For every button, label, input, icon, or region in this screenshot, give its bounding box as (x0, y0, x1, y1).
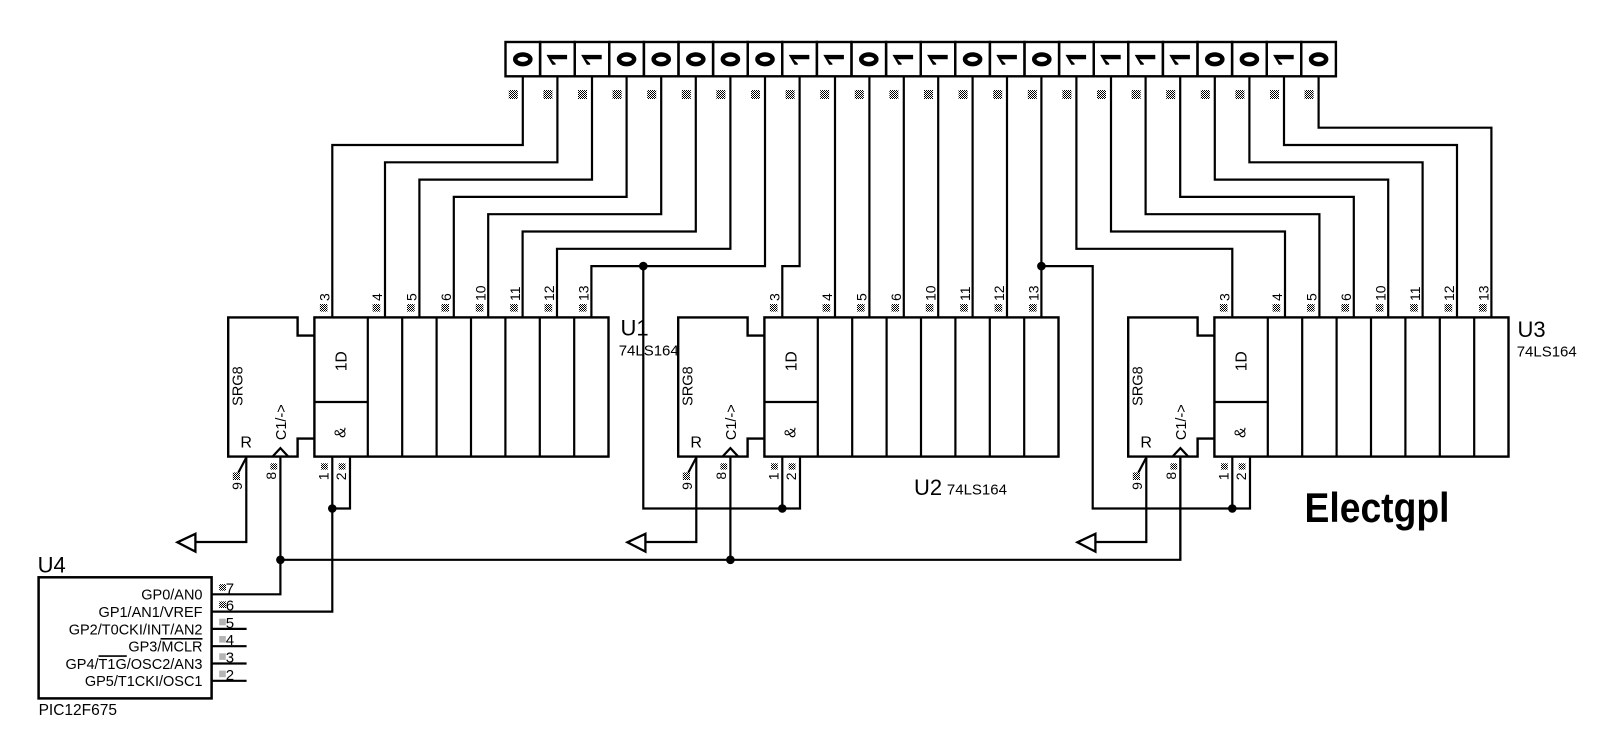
overline T1G (99, 655, 127, 657)
wire origin marker bit 18 (1097, 90, 1106, 99)
junction dot U1 pins 1,2 (328, 504, 337, 513)
wire origin marker bit 1 (509, 90, 518, 99)
U1 reset input arrow terminal (177, 534, 195, 552)
U2 pin 10 origin marker (926, 304, 934, 312)
bit box 2 (value 1) (540, 42, 575, 76)
wire bit 17 to U3 pin 3 (1076, 76, 1232, 317)
svg-text:SRG8: SRG8 (681, 366, 697, 406)
svg-text:GP3/MCLR: GP3/MCLR (128, 640, 202, 656)
svg-text:5: 5 (854, 293, 870, 301)
wire origin marker bit 22 (1235, 90, 1244, 99)
junction dot U2 pins 1,2 (778, 504, 787, 513)
IC U1 register block (314, 317, 608, 456)
svg-text:U3: U3 (1518, 317, 1546, 342)
IC U1 74LS164 control block (SRG8) (228, 317, 314, 456)
svg-text:1D: 1D (334, 351, 351, 371)
IC U4 PIC12F675 body (39, 577, 212, 698)
wire origin marker bit 16 (1028, 90, 1037, 99)
svg-text:1: 1 (315, 472, 331, 480)
IC U1 clock edge triangle (pin 8) (273, 448, 289, 457)
wire bit 21 to U3 pin 10 (1215, 76, 1388, 317)
IC U2 internal cell dividers (764, 317, 1024, 456)
svg-text:C1/->: C1/-> (274, 404, 290, 440)
wire U4 pin 7 (GP0) to clock bus (212, 560, 281, 595)
bit box 20 (value 1) (1163, 42, 1198, 76)
svg-text:C1/->: C1/-> (1174, 404, 1190, 440)
U4 pin 5 origin marker (219, 619, 226, 626)
wire branch Q7(U2) down to U3 data pins 1,2 (1041, 266, 1232, 508)
bit box 5 (value 0) (644, 42, 679, 76)
svg-text:2: 2 (333, 472, 349, 480)
U3 pin 9 diagonal stub (1137, 458, 1147, 476)
U2 pin 8 wire (clock) (729, 457, 731, 560)
U2 pin 2 origin marker (789, 463, 796, 469)
U4 pin 4 origin marker (219, 636, 226, 643)
wire origin marker bit 24 (1305, 90, 1314, 99)
wire origin marker bit 2 (543, 90, 552, 99)
svg-text:SRG8: SRG8 (1131, 366, 1147, 406)
bit box 14 (value 0) (955, 42, 990, 76)
wire origin marker bit 21 (1201, 90, 1210, 99)
wire origin marker bit 23 (1270, 90, 1279, 99)
wire bit 2 to U1 pin 4 (385, 76, 557, 317)
U2 pin 5 origin marker (857, 304, 865, 312)
svg-text:8: 8 (263, 472, 279, 480)
svg-text:74LS164: 74LS164 (619, 342, 679, 359)
bit box 23 (value 1) (1267, 42, 1302, 76)
wire origin marker bit 8 (751, 90, 760, 99)
wire bit 16 to U2 pin 13 (1040, 76, 1042, 317)
U4 pin 4 stub wire (212, 645, 247, 647)
U2 pin 2 wire (data B) (782, 457, 800, 509)
U3 reset input arrow terminal (1077, 534, 1095, 552)
wire bit 7 to U1 pin 12 (557, 76, 730, 317)
svg-text:13: 13 (1026, 285, 1042, 301)
wire origin marker bit 4 (613, 90, 622, 99)
U2 pin 12 origin marker (995, 304, 1003, 312)
U3 pin 2 origin marker (1239, 463, 1246, 469)
svg-text:&: & (783, 427, 800, 438)
wire origin marker bit 20 (1166, 90, 1175, 99)
bit box 21 (value 0) (1198, 42, 1233, 76)
svg-text:U2: U2 (914, 475, 942, 500)
IC U1 internal cell dividers (314, 317, 574, 456)
wire bit 23 to U3 pin 12 (1284, 76, 1457, 317)
bit box 4 (value 0) (609, 42, 644, 76)
IC U2 74LS164 control block (SRG8) (678, 317, 764, 456)
U3 pin 9 wire (reset) (1095, 457, 1146, 542)
U2 pin 6 origin marker (891, 304, 899, 312)
wire U4 pin 6 (GP1) to U1 pins 1,2 (212, 509, 333, 612)
svg-text:8: 8 (1163, 472, 1179, 480)
bit box 8 (value 0) (748, 42, 783, 76)
U4 pin 3 origin marker (219, 653, 226, 660)
U1 pin 9 wire (reset) (195, 457, 246, 542)
U4 pin 3 stub wire (212, 662, 247, 664)
bit box 9 (value 1) (782, 42, 817, 76)
U2 pin 1 wire (data A) (781, 457, 783, 509)
junction dot clock bus at U1 pin 8 (276, 556, 285, 565)
U2 pin 9 diagonal stub (687, 458, 697, 476)
U2 pin 1 origin marker (771, 463, 778, 469)
wire bit 18 to U3 pin 4 (1111, 76, 1285, 317)
wire origin marker bit 12 (889, 90, 898, 99)
U3 pin 1 wire (data A) (1231, 457, 1233, 509)
U2 pin 4 origin marker (823, 304, 831, 312)
wire bit 10 to U2 pin 4 (834, 76, 836, 317)
U4 pin 5 stub wire (212, 628, 247, 630)
svg-text:5: 5 (1304, 293, 1320, 301)
IC U2 clock edge triangle (pin 8) (723, 448, 739, 457)
IC U2 register block (764, 317, 1058, 456)
wire bit 1 to U1 pin 3 (332, 76, 523, 317)
svg-text:8: 8 (713, 472, 729, 480)
wire bit 4 to U1 pin 6 (454, 76, 627, 317)
junction dot clock bus at U2 pin 8 (726, 556, 735, 565)
U1 pin 6 origin marker (441, 304, 449, 312)
wire origin marker bit 5 (647, 90, 656, 99)
wire origin marker bit 11 (855, 90, 864, 99)
wire bit 15 to U2 pin 12 (1006, 76, 1008, 317)
svg-text:1: 1 (765, 472, 781, 480)
bit box 7 (value 0) (713, 42, 748, 76)
U1 pin 3 origin marker (320, 304, 328, 312)
U3 pin 8 origin marker (1170, 463, 1177, 469)
bit box 11 (value 0) (852, 42, 887, 76)
svg-text:9: 9 (1129, 482, 1145, 490)
IC U3 register block (1214, 317, 1508, 456)
wire clock bus (U4 GP0 to U1,U2,U3 pin 8) (280, 457, 1180, 560)
wire U1 pin 13 to bit 8 (Q7 net) (591, 76, 765, 317)
bit box 24 (value 0) (1301, 42, 1336, 76)
svg-text:9: 9 (229, 482, 245, 490)
junction dot Q7(U1) branch (639, 262, 648, 271)
U1 pin 2 wire (data B) (332, 457, 350, 509)
svg-text:&: & (1233, 427, 1250, 438)
svg-text:2: 2 (783, 472, 799, 480)
svg-text:C1/->: C1/-> (724, 404, 740, 440)
svg-text:3: 3 (767, 293, 783, 301)
svg-text:74LS164: 74LS164 (1517, 343, 1577, 360)
U1 pin 1 origin marker (321, 463, 328, 469)
svg-text:1D: 1D (784, 351, 801, 371)
wire bit 12 to U2 pin 6 (903, 76, 905, 317)
svg-text:1D: 1D (1234, 351, 1251, 371)
wire bit 19 to U3 pin 5 (1146, 76, 1320, 317)
bit box 19 (value 1) (1128, 42, 1163, 76)
svg-text:12: 12 (991, 285, 1007, 301)
svg-text:5: 5 (404, 293, 420, 301)
wire origin marker bit 13 (924, 90, 933, 99)
svg-text:R: R (1140, 435, 1152, 452)
U1 pin 9 origin marker (233, 472, 240, 480)
svg-text:10: 10 (1372, 285, 1388, 301)
U3 pin 3 origin marker (1220, 304, 1228, 312)
wire origin marker bit 19 (1132, 90, 1141, 99)
U1 pin 11 origin marker (510, 304, 518, 312)
U3 pin 4 origin marker (1273, 304, 1281, 312)
svg-text:GP5/T1CKI/OSC1: GP5/T1CKI/OSC1 (85, 674, 203, 690)
wire bit 24 to U3 pin 13 (1319, 76, 1492, 317)
bit box 6 (value 0) (679, 42, 714, 76)
wire bit 22 to U3 pin 11 (1249, 76, 1422, 317)
svg-text:GP2/T0CKI/INT/AN2: GP2/T0CKI/INT/AN2 (69, 622, 203, 638)
svg-text:SRG8: SRG8 (231, 366, 247, 406)
wire origin marker bit 9 (786, 90, 795, 99)
U3 pin 5 origin marker (1307, 304, 1315, 312)
svg-text:12: 12 (1441, 285, 1457, 301)
wire origin marker bit 15 (993, 90, 1002, 99)
svg-text:11: 11 (957, 286, 973, 301)
bit box 17 (value 1) (1059, 42, 1094, 76)
bit box 12 (value 1) (886, 42, 921, 76)
wire origin marker bit 3 (578, 90, 587, 99)
svg-text:&: & (333, 427, 350, 438)
wire bit 11 to U2 pin 5 (868, 76, 870, 317)
U1 pin 9 diagonal stub (237, 458, 247, 476)
U3 pin 12 origin marker (1445, 304, 1453, 312)
svg-text:3: 3 (317, 293, 333, 301)
wire bit 6 to U1 pin 11 (523, 76, 696, 317)
svg-text:6: 6 (1338, 293, 1354, 301)
svg-text:11: 11 (1407, 286, 1423, 301)
U1 pin 2 origin marker (339, 463, 346, 469)
svg-text:10: 10 (922, 285, 938, 301)
bit box 10 (value 1) (817, 42, 852, 76)
svg-text:GP4/T1G/OSC2/AN3: GP4/T1G/OSC2/AN3 (66, 657, 203, 673)
svg-text:12: 12 (541, 285, 557, 301)
U4 pin 7 origin marker (219, 584, 226, 591)
svg-text:6: 6 (438, 293, 454, 301)
wire origin marker bit 17 (1062, 90, 1071, 99)
svg-text:1: 1 (1215, 472, 1231, 480)
U1 pin 5 origin marker (407, 304, 415, 312)
svg-text:13: 13 (576, 285, 592, 301)
wire branch Q7(U1) down to U2 data pins 1,2 (643, 266, 782, 508)
junction dot Q7(U2) branch (1037, 262, 1046, 271)
U3 pin 8 wire (clock) (1179, 457, 1181, 560)
wire origin marker bit 6 (682, 90, 691, 99)
U1 pin 13 origin marker (579, 304, 587, 312)
wire origin marker bit 7 (716, 90, 725, 99)
U4 pin 6 origin marker (219, 601, 226, 608)
U1 pin 8 wire (clock) (279, 457, 281, 560)
U3 pin 13 origin marker (1479, 304, 1487, 312)
U3 pin 6 origin marker (1341, 304, 1349, 312)
wire bit 14 to U2 pin 11 (971, 76, 973, 317)
svg-text:6: 6 (888, 293, 904, 301)
U1 pin 12 origin marker (545, 304, 553, 312)
U3 pin 11 origin marker (1410, 304, 1418, 312)
bit box 16 (value 0) (1025, 42, 1060, 76)
svg-text:R: R (690, 435, 702, 452)
U2 reset input arrow terminal (627, 534, 645, 552)
U2 pin 13 origin marker (1029, 304, 1037, 312)
U2 pin 9 origin marker (683, 472, 690, 480)
U4 pin 2 stub wire (212, 680, 247, 682)
wire bit 9 to U2 pin 3 (782, 76, 799, 317)
U1 pin 10 origin marker (476, 304, 484, 312)
IC U3 74LS164 control block (SRG8) (1128, 317, 1214, 456)
svg-text:PIC12F675: PIC12F675 (39, 702, 117, 719)
junction dot U3 pins 1,2 (1228, 504, 1237, 513)
svg-text:2: 2 (1233, 472, 1249, 480)
svg-text:GP1/AN1/VREF: GP1/AN1/VREF (99, 605, 203, 621)
wire bit 13 to U2 pin 10 (937, 76, 939, 317)
svg-text:4: 4 (369, 293, 385, 301)
wire bit 20 to U3 pin 6 (1180, 76, 1354, 317)
svg-text:U4: U4 (38, 552, 66, 577)
svg-text:4: 4 (1269, 293, 1285, 301)
U1 pin 4 origin marker (373, 304, 381, 312)
U2 pin 9 wire (reset) (645, 457, 696, 542)
wire origin marker bit 10 (820, 90, 829, 99)
overline MCLR (161, 638, 203, 640)
svg-text:Electgpl: Electgpl (1305, 484, 1450, 531)
svg-text:GP0/AN0: GP0/AN0 (141, 588, 202, 604)
svg-text:10: 10 (472, 285, 488, 301)
svg-text:R: R (240, 435, 252, 452)
U3 pin 9 origin marker (1133, 472, 1140, 480)
wire origin marker bit 14 (959, 90, 968, 99)
svg-text:11: 11 (507, 286, 523, 301)
wire bit 3 to U1 pin 5 (419, 76, 592, 317)
svg-text:9: 9 (679, 482, 695, 490)
U3 pin 1 origin marker (1221, 463, 1228, 469)
svg-text:3: 3 (1217, 293, 1233, 301)
wire bit 5 to U1 pin 10 (488, 76, 661, 317)
U3 pin 10 origin marker (1376, 304, 1384, 312)
U2 pin 8 origin marker (720, 463, 727, 469)
U3 pin 2 wire (data B) (1232, 457, 1250, 509)
U2 pin 3 origin marker (770, 304, 778, 312)
svg-text:U1: U1 (621, 315, 649, 340)
bit box 18 (value 1) (1094, 42, 1129, 76)
bit box 1 (value 0) (506, 42, 541, 76)
bit box 13 (value 1) (921, 42, 956, 76)
IC U3 internal cell dividers (1214, 317, 1474, 456)
svg-text:13: 13 (1476, 285, 1492, 301)
U2 pin 11 origin marker (960, 304, 968, 312)
U1 pin 8 origin marker (270, 463, 277, 469)
bit box 22 (value 0) (1232, 42, 1267, 76)
svg-text:4: 4 (819, 293, 835, 301)
IC U3 clock edge triangle (pin 8) (1173, 448, 1189, 457)
bit box 3 (value 1) (575, 42, 610, 76)
svg-text:74LS164: 74LS164 (947, 482, 1007, 499)
U4 pin 2 origin marker (219, 671, 226, 678)
U1 pin 1 wire (data A) (331, 457, 333, 509)
bit box 15 (value 1) (990, 42, 1025, 76)
